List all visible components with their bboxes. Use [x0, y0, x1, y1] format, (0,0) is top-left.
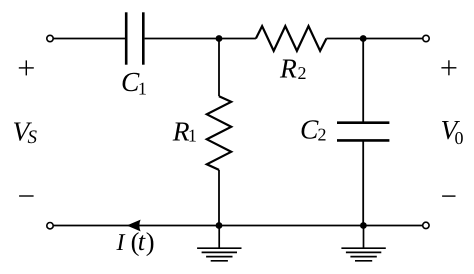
- svg-text:C: C: [300, 114, 319, 145]
- label minus left: [19, 195, 33, 197]
- terminal top-left: [47, 35, 53, 41]
- svg-text:1: 1: [188, 125, 197, 145]
- wire node A down to R1: [218, 39, 220, 97]
- resistor R1: [207, 96, 231, 170]
- capacitor C2: [337, 123, 389, 141]
- svg-text:t: t: [138, 226, 146, 256]
- node A: [216, 35, 223, 42]
- terminal bottom-left: [47, 223, 53, 229]
- wire C2 to bottom node: [362, 140, 364, 225]
- wire R1 to bottom node: [218, 170, 220, 226]
- capacitor C1: [126, 12, 143, 64]
- svg-text:): ): [146, 227, 155, 257]
- svg-text:S: S: [28, 127, 38, 148]
- wire top-left: [53, 38, 125, 40]
- label plus right: [441, 60, 456, 75]
- svg-text:I: I: [116, 230, 126, 256]
- svg-text:R: R: [279, 53, 297, 84]
- resistor R2: [256, 26, 327, 51]
- ground left: [197, 226, 241, 261]
- terminal top-right: [423, 35, 429, 41]
- node B: [360, 35, 367, 42]
- wire node A to R2: [219, 38, 256, 40]
- terminal bottom-right: [423, 222, 429, 228]
- wire C1 to node A: [145, 38, 219, 40]
- label plus left: [19, 60, 34, 75]
- node bottom-left (under R1): [216, 222, 223, 229]
- svg-text:1: 1: [138, 78, 147, 98]
- wire R2 to node B and right terminal: [326, 38, 422, 40]
- current arrow I(t): [127, 220, 141, 232]
- svg-text:2: 2: [318, 125, 327, 145]
- ground right: [341, 226, 385, 261]
- svg-text:0: 0: [455, 128, 464, 148]
- node bottom-right (under C2): [360, 222, 367, 229]
- wire node B down to C2: [362, 39, 364, 123]
- svg-text:2: 2: [298, 63, 307, 83]
- label minus right: [442, 195, 455, 197]
- bottom wire: [53, 225, 422, 227]
